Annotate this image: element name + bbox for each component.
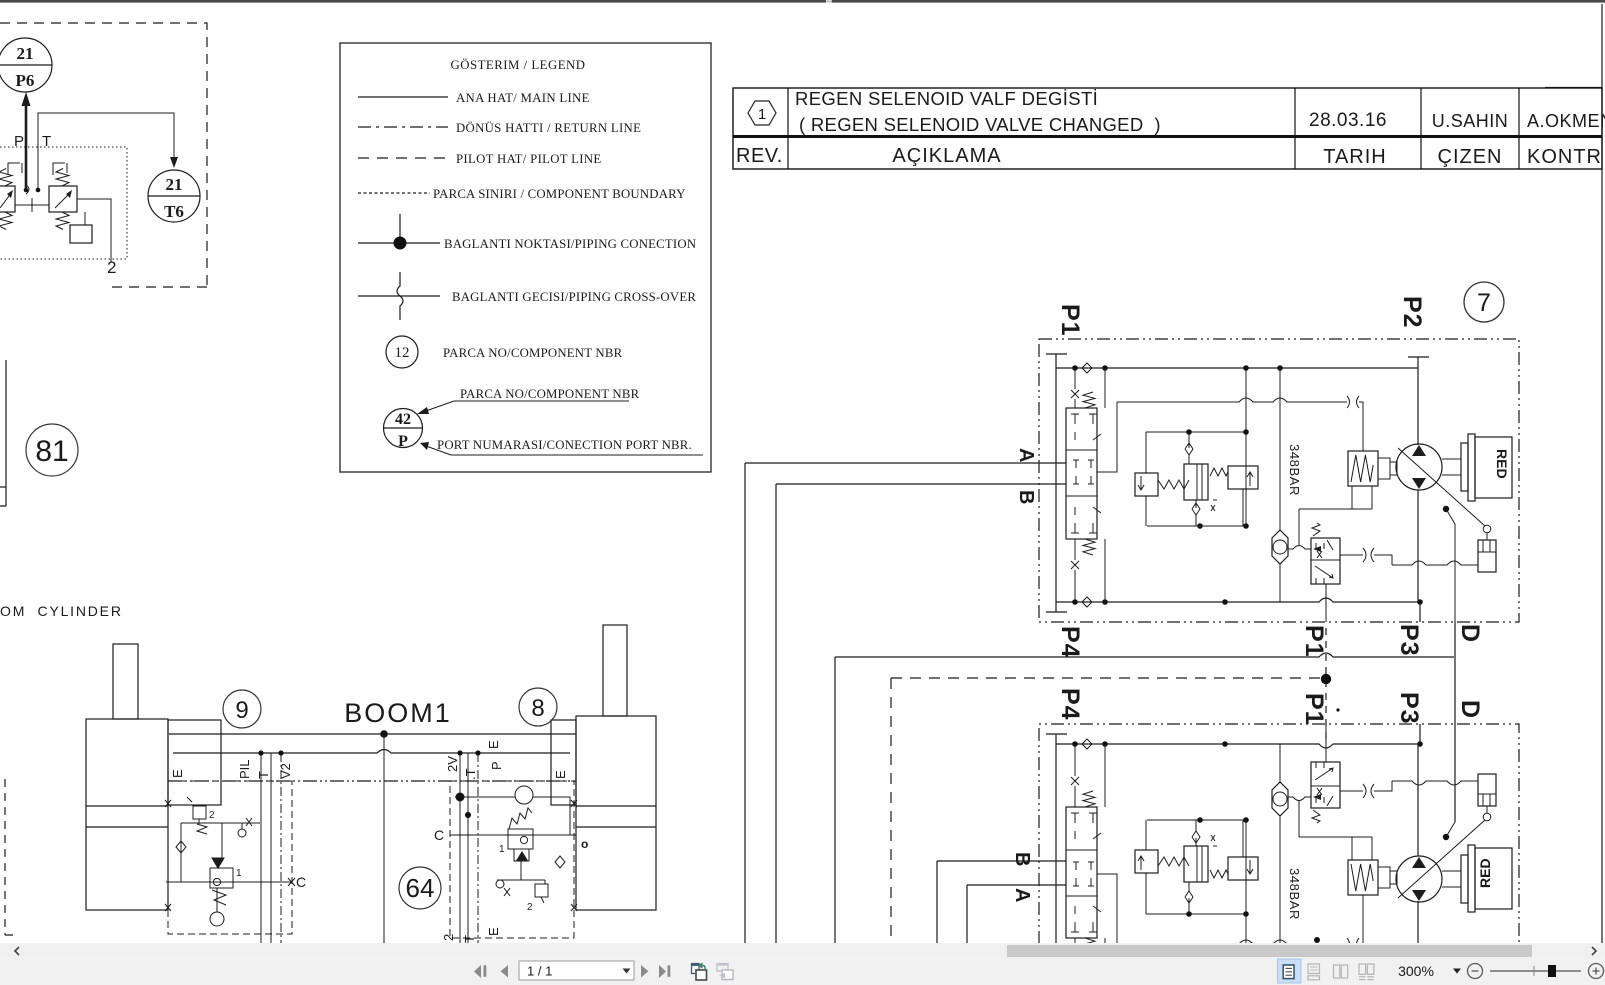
svg-text:P1: P1 <box>1300 625 1328 658</box>
svg-text:2: 2 <box>527 902 533 913</box>
svg-text:T: T <box>42 133 51 150</box>
svg-text:28.03.16: 28.03.16 <box>1309 110 1387 131</box>
svg-text:KONTR: KONTR <box>1527 146 1602 168</box>
svg-text:P4: P4 <box>1056 688 1084 721</box>
svg-text:42: 42 <box>395 411 411 428</box>
svg-text:348BAR: 348BAR <box>1287 868 1302 920</box>
svg-text:P: P <box>489 761 504 770</box>
svg-text:RED: RED <box>1494 449 1510 479</box>
svg-text:DÖNÜS HATTI / RETURN LINE: DÖNÜS HATTI / RETURN LINE <box>456 121 641 135</box>
svg-text:C: C <box>434 827 444 843</box>
svg-text:A: A <box>1015 448 1037 463</box>
svg-text:PORT NUMARASI/CONECTION PORT N: PORT NUMARASI/CONECTION PORT NBR. <box>437 438 692 452</box>
svg-text:.T: .T <box>463 768 478 780</box>
svg-text:A: A <box>1011 888 1033 903</box>
svg-text:V2: V2 <box>278 763 293 779</box>
svg-text:300%: 300% <box>1398 963 1434 979</box>
svg-text:D: D <box>1456 700 1484 719</box>
svg-text:GÖSTERIM / LEGEND: GÖSTERIM / LEGEND <box>450 58 585 72</box>
svg-text:2V: 2V <box>445 756 460 772</box>
svg-text:E: E <box>486 927 501 936</box>
svg-text:PILOT HAT/ PILOT LINE: PILOT HAT/ PILOT LINE <box>456 152 602 166</box>
svg-text:P4: P4 <box>1056 626 1084 659</box>
svg-text:REV.: REV. <box>736 145 783 167</box>
svg-text:P1: P1 <box>1300 693 1328 726</box>
svg-text:RED: RED <box>1477 858 1493 888</box>
svg-text:E: E <box>486 740 501 749</box>
svg-text:2: 2 <box>441 934 456 941</box>
svg-text:U.SAHIN: U.SAHIN <box>1432 111 1509 131</box>
svg-text:1 / 1: 1 / 1 <box>527 964 552 979</box>
svg-text:E: E <box>553 770 568 779</box>
svg-text:ÇIZEN: ÇIZEN <box>1438 146 1503 168</box>
svg-text:P3: P3 <box>1395 692 1423 725</box>
svg-text:12: 12 <box>395 345 410 361</box>
svg-text:BOOM1: BOOM1 <box>344 698 452 728</box>
svg-text:AÇIKLAMA: AÇIKLAMA <box>892 145 1001 167</box>
svg-text:E: E <box>170 769 185 778</box>
svg-text:81: 81 <box>35 435 68 468</box>
svg-text:ANA HAT/ MAIN LINE: ANA HAT/ MAIN LINE <box>456 91 590 105</box>
svg-text:T: T <box>462 935 477 943</box>
svg-text:BAGLANTI NOKTASI/PIPING CONECT: BAGLANTI NOKTASI/PIPING CONECTION <box>444 237 696 251</box>
svg-text:1: 1 <box>758 106 766 123</box>
svg-text:1: 1 <box>236 868 242 879</box>
svg-text:P1: P1 <box>1056 304 1084 337</box>
svg-text:P3: P3 <box>1395 624 1423 657</box>
svg-text:B: B <box>1015 490 1037 505</box>
svg-text:PIL: PIL <box>237 759 252 779</box>
svg-text:REGEN SELENOID VALF DEGİSTİ: REGEN SELENOID VALF DEGİSTİ <box>795 88 1098 109</box>
svg-text:21: 21 <box>166 175 183 194</box>
svg-text:PARCA NO/COMPONENT NBR: PARCA NO/COMPONENT NBR <box>443 346 623 360</box>
svg-text:T: T <box>256 771 271 779</box>
svg-text:7: 7 <box>1477 289 1491 317</box>
svg-text:A.OKMEN: A.OKMEN <box>1527 111 1605 131</box>
svg-text:o: o <box>581 837 588 851</box>
svg-text:P2: P2 <box>1398 296 1426 329</box>
svg-text:P6: P6 <box>16 71 35 90</box>
svg-text:8: 8 <box>531 695 544 722</box>
svg-text:64: 64 <box>406 873 435 903</box>
svg-text:P: P <box>14 133 24 150</box>
svg-text:PARCA NO/COMPONENT NBR: PARCA NO/COMPONENT NBR <box>460 387 640 401</box>
svg-text:C: C <box>296 874 306 890</box>
svg-text:348BAR: 348BAR <box>1287 444 1302 496</box>
svg-text:( REGEN SELENOID VALVE CHANGED: ( REGEN SELENOID VALVE CHANGED ) <box>799 114 1161 135</box>
svg-text:B: B <box>1011 852 1033 867</box>
svg-text:9: 9 <box>235 697 248 724</box>
svg-text:2: 2 <box>209 810 215 821</box>
svg-text:TARIH: TARIH <box>1323 146 1387 168</box>
svg-text:D: D <box>1456 624 1484 643</box>
svg-text:21: 21 <box>17 44 34 63</box>
svg-text:T6: T6 <box>164 202 184 221</box>
svg-text:2: 2 <box>107 258 116 277</box>
svg-text:1: 1 <box>499 844 505 855</box>
svg-text:BAGLANTI GECISI/PIPING CROSS-O: BAGLANTI GECISI/PIPING CROSS-OVER <box>452 290 696 304</box>
svg-text:PARCA SINIRI / COMPONENT BOUND: PARCA SINIRI / COMPONENT BOUNDARY <box>433 187 686 201</box>
svg-text:P: P <box>398 433 408 450</box>
svg-text:OM CYLINDER: OM CYLINDER <box>0 603 123 619</box>
